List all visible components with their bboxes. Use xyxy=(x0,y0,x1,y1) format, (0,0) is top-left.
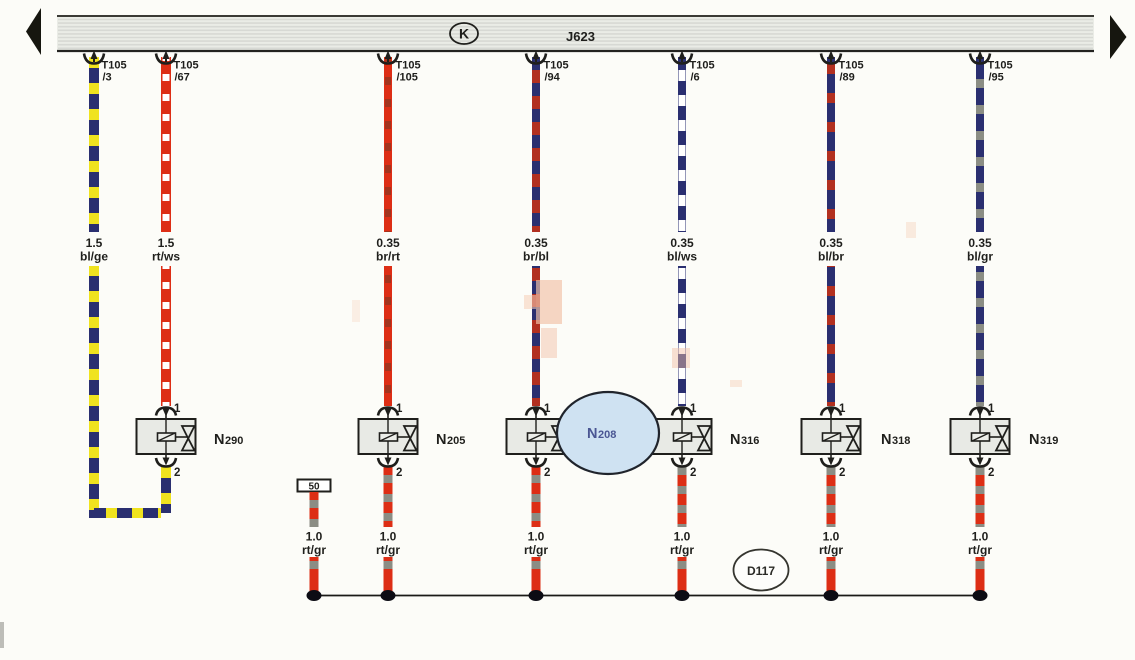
terminal 50 box xyxy=(298,480,331,493)
wire rt/gr below pin 2 xyxy=(384,467,393,527)
wire value label 1.5 rt/ws xyxy=(152,236,180,264)
wire br/rt lower run xyxy=(384,266,392,406)
right continuation arrow xyxy=(1110,15,1127,59)
terminal connector T105/89 at bus xyxy=(821,51,841,64)
svg-text:0.35: 0.35 xyxy=(670,236,694,250)
svg-text:1.0: 1.0 xyxy=(674,530,691,544)
svg-text:/89: /89 xyxy=(840,72,855,84)
svg-text:T105: T105 xyxy=(544,60,569,72)
svg-text:N208: N208 xyxy=(587,426,616,442)
svg-text:N205: N205 xyxy=(436,432,465,448)
svg-text:T105: T105 xyxy=(690,60,715,72)
svg-text:0.35: 0.35 xyxy=(819,236,843,250)
ground rail wire xyxy=(314,595,982,597)
svg-text:bl/ge: bl/ge xyxy=(80,250,108,264)
junction node at x=314 xyxy=(307,590,322,601)
svg-text:2: 2 xyxy=(544,467,550,479)
terminal label T105/67 xyxy=(174,60,199,84)
bus bar J623 xyxy=(57,16,1094,51)
wire rt/gr below pin 2 xyxy=(532,467,541,527)
svg-text:br/bl: br/bl xyxy=(523,250,549,264)
wire bl/ws upper run xyxy=(678,57,686,232)
wire value label 1.0 rt/gr xyxy=(376,530,400,558)
svg-text:1.0: 1.0 xyxy=(380,530,397,544)
wire value label 0.35 br/bl xyxy=(523,236,549,264)
pin 2 connector xyxy=(156,454,176,467)
svg-text:1: 1 xyxy=(690,403,697,415)
svg-text:0.35: 0.35 xyxy=(376,236,400,250)
svg-text:N290: N290 xyxy=(214,432,243,448)
pin 1 connector xyxy=(672,408,692,420)
wire value label 1.0 rt/gr xyxy=(302,530,326,558)
wire value label 0.35 bl/ws xyxy=(667,236,697,264)
terminal label T105/3 xyxy=(102,60,127,84)
terminal label T105/89 xyxy=(839,60,864,84)
svg-text:2: 2 xyxy=(174,467,180,479)
wire rt/gr to ground rail xyxy=(532,557,541,596)
svg-text:rt/gr: rt/gr xyxy=(376,543,400,557)
wire value label 0.35 bl/br xyxy=(818,236,844,264)
svg-text:T105: T105 xyxy=(988,60,1013,72)
wire bl/ge lower run (down and right along corner) xyxy=(94,266,161,513)
solenoid valve N208box box xyxy=(507,419,566,454)
svg-text:1: 1 xyxy=(839,403,846,415)
wire rt/gr to ground rail xyxy=(678,557,687,596)
svg-text:T105: T105 xyxy=(396,60,421,72)
svg-text:2: 2 xyxy=(988,467,994,479)
svg-text:T105: T105 xyxy=(102,60,127,72)
pin 2 connector xyxy=(378,454,398,467)
pin 2 connector xyxy=(821,454,841,467)
svg-text:2: 2 xyxy=(396,467,402,479)
solenoid valve N318 box xyxy=(802,419,861,454)
svg-text:0.35: 0.35 xyxy=(968,236,992,250)
junction node at x=682 xyxy=(675,590,690,601)
terminal connector T105/6 at bus xyxy=(672,51,692,64)
wire bl/br upper run xyxy=(827,57,835,232)
terminal label T105/105 xyxy=(396,60,421,84)
wire value label 1.5 bl/ge xyxy=(80,236,108,264)
pin 2 connector xyxy=(526,454,546,467)
svg-text:/94: /94 xyxy=(545,72,561,84)
wire bl/gr upper run xyxy=(976,57,984,232)
pin 1 connector xyxy=(156,408,176,420)
wire rt/gr to ground rail xyxy=(310,557,319,596)
terminal label T105/6 xyxy=(690,60,715,84)
wire value label 0.35 bl/gr xyxy=(967,236,993,264)
svg-text:N319: N319 xyxy=(1029,432,1058,448)
svg-text:/6: /6 xyxy=(691,72,700,84)
wire rt/ws lower run xyxy=(161,266,171,406)
terminal connector T105/105 at bus xyxy=(378,51,398,64)
scan artifacts xyxy=(0,222,916,648)
pin 1 connector xyxy=(970,408,990,420)
pin 1 connector xyxy=(378,408,398,420)
svg-text:rt/gr: rt/gr xyxy=(819,543,843,557)
wire bl/ge upper run xyxy=(89,57,99,232)
wire bl/ws lower run xyxy=(678,266,686,406)
svg-text:rt/ws: rt/ws xyxy=(152,250,180,264)
terminal label T105/95 xyxy=(988,60,1013,84)
svg-text:1.0: 1.0 xyxy=(528,530,545,544)
wire value label 1.0 rt/gr xyxy=(670,530,694,558)
svg-text:1: 1 xyxy=(174,403,181,415)
solenoid valve N319 box xyxy=(951,419,1010,454)
svg-text:/105: /105 xyxy=(397,72,418,84)
svg-text:1.5: 1.5 xyxy=(86,236,103,250)
svg-text:/95: /95 xyxy=(989,72,1004,84)
terminal label T105/94 xyxy=(544,60,569,84)
pin 1 connector xyxy=(526,408,546,420)
svg-text:1: 1 xyxy=(544,403,551,415)
svg-text:2: 2 xyxy=(690,467,696,479)
svg-text:K: K xyxy=(459,26,469,42)
wire rt/ws upper run xyxy=(161,57,171,232)
solenoid valve N290 box xyxy=(137,419,196,454)
junction node at x=388 xyxy=(381,590,396,601)
svg-text:rt/gr: rt/gr xyxy=(524,543,548,557)
svg-text:1.0: 1.0 xyxy=(972,530,989,544)
svg-text:1: 1 xyxy=(988,403,995,415)
terminal connector T105/95 at bus xyxy=(970,51,990,64)
svg-text:/67: /67 xyxy=(175,72,190,84)
solenoid valve N208 ellipse xyxy=(557,392,659,474)
wire value label 1.0 rt/gr xyxy=(524,530,548,558)
pin 2 connector xyxy=(672,454,692,467)
svg-text:T105: T105 xyxy=(174,60,199,72)
wire rt/gr below pin 2 xyxy=(678,467,687,527)
svg-text:1.0: 1.0 xyxy=(306,530,323,544)
svg-text:J623: J623 xyxy=(566,29,595,44)
terminal connector T105/3 at bus xyxy=(84,51,104,64)
relay symbol K on bus xyxy=(450,23,478,44)
connection D117 xyxy=(734,550,789,591)
svg-text:/3: /3 xyxy=(103,72,112,84)
terminal connector T105/67 at bus xyxy=(156,51,176,64)
svg-text:rt/gr: rt/gr xyxy=(302,543,326,557)
terminal connector T105/94 at bus xyxy=(526,51,546,64)
wire rt/gr from terminal 50 xyxy=(310,492,319,527)
junction node at x=980 xyxy=(973,590,988,601)
wire value label 0.35 br/rt xyxy=(376,236,400,264)
wire rt/gr below pin 2 xyxy=(976,467,985,527)
svg-text:D117: D117 xyxy=(747,564,775,578)
wire rt/gr to ground rail xyxy=(976,557,985,596)
left continuation arrow xyxy=(26,8,41,55)
wire bl/ge riser to N290 pin 2 xyxy=(161,467,171,513)
svg-text:N316: N316 xyxy=(730,432,759,448)
pin 2 connector xyxy=(970,454,990,467)
junction node at x=536 xyxy=(529,590,544,601)
svg-text:bl/ws: bl/ws xyxy=(667,250,697,264)
wire value label 1.0 rt/gr xyxy=(968,530,992,558)
solenoid valve N205 box xyxy=(359,419,418,454)
svg-text:br/rt: br/rt xyxy=(376,250,400,264)
svg-text:bl/br: bl/br xyxy=(818,250,844,264)
svg-text:T105: T105 xyxy=(839,60,864,72)
svg-text:1: 1 xyxy=(396,403,403,415)
wire rt/gr to ground rail xyxy=(827,557,836,596)
wire br/rt upper run xyxy=(384,57,392,232)
wire bl/gr lower run xyxy=(976,266,984,406)
svg-text:1.5: 1.5 xyxy=(158,236,175,250)
wire rt/gr below pin 2 xyxy=(827,467,836,527)
svg-text:0.35: 0.35 xyxy=(524,236,548,250)
pin 1 connector xyxy=(821,408,841,420)
svg-text:50: 50 xyxy=(308,482,320,493)
svg-text:rt/gr: rt/gr xyxy=(670,543,694,557)
wire br/bl lower run xyxy=(532,266,540,406)
wire rt/gr to ground rail xyxy=(384,557,393,596)
junction node at x=831 xyxy=(824,590,839,601)
svg-text:bl/gr: bl/gr xyxy=(967,250,993,264)
svg-text:N318: N318 xyxy=(881,432,910,448)
svg-text:1.0: 1.0 xyxy=(823,530,840,544)
solenoid valve N316 box xyxy=(653,419,712,454)
wire bl/br lower run xyxy=(827,266,835,406)
svg-text:2: 2 xyxy=(839,467,845,479)
wire value label 1.0 rt/gr xyxy=(819,530,843,558)
wire br/bl upper run xyxy=(532,57,540,232)
svg-text:rt/gr: rt/gr xyxy=(968,543,992,557)
